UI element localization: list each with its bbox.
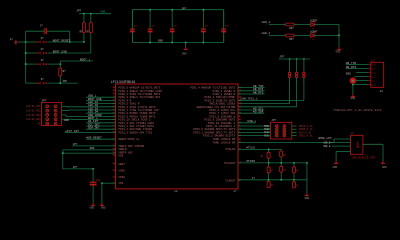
svg-text:XTALIN: XTALIN	[226, 148, 236, 151]
svg-text:GND: GND	[90, 147, 95, 150]
svg-text:GND: GND	[182, 53, 187, 56]
svg-text:#B_TXO: #B_TXO	[346, 62, 357, 65]
svg-text:U?: U?	[41, 78, 45, 81]
svg-text:GND: GND	[332, 166, 337, 169]
svg-text:GND: GND	[89, 207, 94, 210]
svg-text:LED3?: LED3?	[310, 20, 318, 23]
svg-text:GND: GND	[305, 197, 310, 200]
svg-text:U?: U?	[41, 48, 45, 51]
svg-text:THRU LOUV18 DM: THRU LOUV18 DM	[213, 141, 236, 144]
svg-text:GND: GND	[351, 97, 356, 100]
svg-text:VSSA: VSSA	[118, 176, 125, 179]
svg-text:C10: C10	[96, 179, 101, 182]
svg-text:TXO: TXO	[372, 71, 377, 74]
svg-text:PIO3_2 SACWR0 DCD/TV: PIO3_2 SACWR0 DCD/TV	[203, 134, 236, 138]
svg-text:RXI: RXI	[372, 67, 377, 70]
svg-text:C?: C?	[152, 25, 156, 28]
svg-text:XTALOUT: XTALOUT	[224, 162, 236, 165]
svg-text:GND: GND	[64, 119, 69, 122]
svg-text:GND: GND	[336, 51, 341, 54]
svg-text:JP: JP	[37, 122, 41, 125]
svg-text:C?: C?	[134, 25, 138, 28]
svg-text:JP?: JP?	[271, 119, 276, 122]
svg-text:JP?: JP?	[73, 143, 78, 146]
svg-text:BOOT_RESET: BOOT_RESET	[53, 39, 71, 42]
svg-text:C?: C?	[40, 25, 44, 28]
svg-text:U?: U?	[41, 37, 45, 40]
svg-text:LED_2: LED_2	[262, 32, 271, 35]
svg-text:R3?: R3?	[289, 27, 294, 30]
svg-text:SSEL/X_AL: SSEL/X_AL	[299, 134, 313, 138]
svg-text:SSEL: SSEL	[264, 134, 270, 137]
svg-text:C?: C?	[225, 25, 229, 28]
svg-text:u?: u?	[233, 190, 237, 193]
svg-text:JP?: JP?	[41, 100, 46, 103]
svg-text:U?: U?	[41, 59, 45, 62]
svg-text:PIO1_3 SWDIO AD4 CT32: PIO1_3 SWDIO AD4 CT32	[118, 131, 152, 134]
svg-text:J2?: J2?	[371, 60, 376, 63]
svg-text:u2: u2	[175, 190, 179, 193]
svg-text:AD5: AD5	[63, 80, 68, 83]
svg-text:JP?: JP?	[73, 166, 78, 169]
svg-text:R?: R?	[86, 30, 90, 33]
svg-text:LED_1: LED_1	[262, 21, 271, 24]
svg-text:#B_RXI: #B_RXI	[346, 66, 357, 69]
svg-text:JP?: JP?	[76, 10, 81, 13]
svg-text:RESET/PIO0 2L: RESET/PIO0 2L	[118, 137, 139, 141]
svg-text:CTS: CTS	[372, 80, 377, 83]
svg-text:#B_RTS: #B_RTS	[253, 91, 264, 94]
svg-text:USB_D+: USB_D+	[323, 141, 332, 144]
svg-text:VDD: VDD	[101, 11, 106, 14]
svg-text:GND: GND	[158, 40, 163, 43]
svg-text:CLKOUT: CLKOUT	[226, 179, 236, 182]
svg-text:VSS: VSS	[118, 182, 123, 185]
svg-text:GND: GND	[101, 207, 106, 210]
svg-text:R4?: R4?	[289, 38, 294, 41]
svg-text:#TCLK: #TCLK	[246, 147, 255, 150]
svg-text:VSSA: VSSA	[118, 170, 125, 173]
svg-text:LCD-OC-A03: LCD-OC-A03	[26, 114, 41, 117]
svg-text:GND: GND	[372, 84, 377, 87]
svg-text:C?: C?	[205, 25, 209, 28]
svg-text:USB_MINI-B_SMT: USB_MINI-B_SMT	[352, 156, 376, 159]
svg-text:LCD-OC-A04: LCD-OC-A04	[26, 118, 41, 121]
svg-text:GND: GND	[346, 73, 351, 76]
svg-text:C?: C?	[174, 25, 178, 28]
svg-text:BOOT_USB: BOOT_USB	[53, 50, 67, 53]
svg-text:LCD-OC-A01: LCD-OC-A01	[26, 105, 41, 108]
svg-text:JP?: JP?	[181, 7, 186, 10]
svg-text:VBAT: VBAT	[118, 163, 125, 166]
svg-text:R?: R?	[80, 30, 84, 33]
svg-text:J?: J?	[252, 177, 256, 180]
svg-text:USB_D-: USB_D-	[323, 145, 332, 148]
svg-text:USB: USB	[355, 142, 359, 148]
svg-text:J2: J2	[380, 90, 384, 93]
svg-text:#D_SDA: #D_SDA	[253, 111, 264, 114]
svg-text:3V3: 3V3	[372, 63, 377, 66]
svg-text:JP?: JP?	[279, 56, 284, 59]
svg-text:VSS: VSS	[372, 75, 377, 78]
svg-text:GND: GND	[382, 166, 387, 169]
svg-text:#TDIO: #TDIO	[246, 160, 255, 163]
svg-text:LCD-OC-A02: LCD-OC-A02	[26, 110, 41, 113]
svg-text:BOOT_L: BOOT_L	[80, 58, 91, 61]
svg-text:R?: R?	[63, 70, 67, 73]
svg-text:VSS: VSS	[118, 155, 123, 158]
svg-text:uPRG_LPC: uPRG_LPC	[318, 137, 332, 140]
svg-text:TXB0104-OPT_2_NC_PASTE_SILK: TXB0104-OPT_2_NC_PASTE_SILK	[333, 109, 382, 112]
svg-text:LED4?: LED4?	[310, 31, 318, 34]
svg-text:CAN_TXCL_L: CAN_TXCL_L	[241, 98, 259, 101]
